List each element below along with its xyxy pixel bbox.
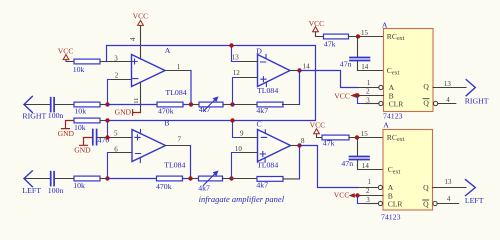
svg-text:GND: GND [58,129,75,138]
wire 470k to node [183,178,191,180]
wire 4k7 to C output corner [283,178,300,180]
wire C output [291,145,300,147]
svg-text:TL084: TL084 [257,161,278,170]
node junction (C + bias) [229,176,233,180]
wire 4k7 to D output corner [283,104,300,106]
svg-text:15: 15 [361,130,369,138]
node junction (B out) [188,176,192,180]
wire node to 4k7 [232,178,258,180]
node junction (rail B left) [105,118,109,122]
capacitor 100n (right) [48,98,64,121]
wire 47n to pin 14 [358,61,384,70]
wire node to pin 2 [108,80,132,105]
wire pin 9 from rail B [233,121,258,138]
svg-text:D: D [256,46,262,55]
svg-text:A: A [165,46,171,55]
svg-text:1: 1 [368,178,372,186]
wire Q output to LEFT [433,187,467,189]
wire 10k to node [100,104,108,106]
wire 10k to node [100,178,108,180]
resistor 10k (right input) [74,102,100,116]
wire B output down [190,146,192,179]
svg-text:47k: 47k [324,40,336,49]
wire bottom rail left [108,178,157,180]
wire op-amp A output [165,70,191,72]
wire corner up to D out [299,71,301,105]
wire 47n to pin 14 [358,160,384,169]
node junction (rail B / pin9) [230,118,234,122]
svg-text:15: 15 [361,29,369,37]
wire rail B down to pin 5 [108,121,133,138]
svg-text:RIGHT: RIGHT [22,112,46,121]
wire pin 13 stub [240,61,258,63]
svg-text:10k: 10k [74,123,86,132]
wire 470k to node [183,104,191,106]
wire pin 3 stub [365,103,379,105]
svg-text:4k7: 4k7 [199,105,211,114]
node junction (D + bias) [230,102,234,106]
wire pin 10 from bias node [232,153,258,179]
wire top rail left [108,104,158,106]
svg-text:Q: Q [423,98,429,107]
svg-text:47n: 47n [341,159,353,168]
ground stub op-amp A pin 11 [115,82,141,116]
wire trimmer to node [223,104,233,106]
svg-text:infragate amplifier panel: infragate amplifier panel [199,194,285,204]
svg-text:14: 14 [362,162,370,170]
svg-text:11: 11 [133,98,140,104]
wire VCC to pin 3 [358,96,379,104]
wire node to 4k7 [233,104,258,106]
svg-text:4k7: 4k7 [198,183,210,192]
svg-text:4k7: 4k7 [256,106,268,115]
node junction (rail A / pin13) [229,43,233,47]
op-amp A TL084 [132,46,187,97]
svg-text:12: 12 [233,69,241,77]
power VCC (op-amp A supply) [133,12,149,26]
wire op-amp B output [166,145,191,147]
wire VCC4 to 47k [317,134,323,138]
wire corner up to C out [299,146,301,179]
node junction (VCC pins B) [355,193,359,197]
svg-text:470k: 470k [158,107,174,116]
svg-text:3: 3 [114,55,118,63]
svg-text:1: 1 [367,79,371,87]
resistor 10k (pin 3) [73,59,100,74]
wire VCC to pin 2 [357,95,384,97]
svg-text:C: C [257,119,262,128]
wire VCC to op-amp A pin 4 [140,26,142,60]
svg-text:5: 5 [114,130,118,138]
wire pin 3 [100,61,132,63]
node junction (VCC pins A) [355,93,359,97]
power VCC (47k bottom) [310,120,326,133]
wire A-input stub [358,187,378,189]
port RIGHT input arrow [22,96,46,120]
wire D out to 74123 A input [300,71,359,88]
wire pin 13 from rail A [232,46,258,62]
wire C out to 74123 B A-input [300,146,359,188]
wire cap to pin 5 node [98,137,108,139]
wire input to cap [24,104,50,106]
trimmer 4k7 (bottom) [198,171,222,193]
wire cap to 10k [55,178,74,180]
svg-text:47k: 47k [323,139,335,148]
resistor 470k (B feedback) [156,176,183,191]
resistor 4k7 (D feedback) [256,102,283,115]
svg-text:TL084: TL084 [257,86,278,95]
svg-text:LEFT: LEFT [465,196,484,205]
svg-text:1: 1 [177,63,181,71]
power VCC (47k top) [309,19,325,32]
port RIGHT output arrow [465,80,489,106]
svg-text:10: 10 [235,145,243,153]
svg-text:470k: 470k [156,182,172,191]
wire VCC to pin 2 [355,195,383,197]
svg-text:9: 9 [240,129,244,137]
wire A-input stub [358,87,378,89]
wire bias rail A [107,46,316,121]
svg-text:VCC: VCC [309,19,325,28]
ground GND (470 cap) [74,138,92,155]
wire pin 3 stub [365,203,378,205]
resistor 47k (top) [324,34,349,49]
svg-text:VCC: VCC [310,120,326,129]
svg-text:CLR: CLR [388,199,404,208]
svg-text:14: 14 [361,63,369,71]
wire Q output to RIGHT [433,87,466,89]
svg-text:VCC: VCC [334,91,350,100]
wire trimmer to node [223,178,232,180]
svg-text:74123: 74123 [383,112,403,121]
wire pin 12 from bias node [233,78,258,105]
trimmer 4k7 (top) [199,96,223,114]
svg-text:B: B [164,118,169,127]
svg-text:GND: GND [115,108,132,117]
svg-text:RIGHT: RIGHT [465,96,489,105]
svg-text:2: 2 [115,72,119,80]
wire pin 6 stub [112,152,132,154]
svg-text:VCC: VCC [58,46,74,55]
svg-text:A: A [382,21,388,30]
svg-text:13: 13 [445,178,453,186]
wire pin 12 stub [240,77,258,79]
svg-text:TL084: TL084 [165,88,186,97]
wire VCC to pin 3 [358,196,379,204]
capacitor 47n (bottom) [341,138,369,168]
wire pin 6 from rail [108,153,133,179]
IC 74123 A [379,21,438,121]
svg-text:14: 14 [303,62,311,70]
port LEFT input arrow [22,171,41,195]
node junction (D out) [297,68,301,72]
svg-text:4k7: 4k7 [256,181,268,190]
capacitor 470 [93,130,110,145]
svg-text:10k: 10k [73,181,85,190]
svg-text:4: 4 [447,195,451,203]
wire Q-bar pin 4 [438,103,456,105]
op-amp B TL084 [132,118,186,169]
svg-text:13: 13 [444,80,452,88]
svg-text:A: A [383,120,389,129]
svg-text:Q: Q [423,200,429,209]
node junction (pin 5) [105,135,109,139]
wire node to trimmer [191,178,199,180]
svg-text:4: 4 [129,37,137,41]
resistor 470k (A feedback) [157,102,183,116]
power VCC (74123 B B/CLR) [334,191,355,200]
wire 47k to pin 15 [349,36,384,38]
svg-text:LEFT: LEFT [22,186,41,195]
wire VCC3 to 47k [316,32,324,37]
ground GND (bias divider bottom) [58,121,75,139]
node junction (RCext top) [356,34,360,38]
port LEFT output arrow [465,180,484,205]
op-amp D TL084 [256,46,290,95]
svg-text:13: 13 [232,54,240,62]
svg-text:VCC: VCC [334,191,350,200]
node junction (A out) [189,102,193,106]
svg-text:3: 3 [366,96,370,104]
svg-text:6: 6 [114,145,118,153]
svg-text:7: 7 [178,136,182,144]
node junction (RCext bottom) [355,135,359,139]
resistor 10k (bias bottom) [74,118,100,132]
wire output down to rail [190,71,192,105]
svg-text:8: 8 [301,137,305,145]
node junction (input B) [105,176,109,180]
svg-text:74123: 74123 [381,212,401,221]
svg-text:2: 2 [366,187,370,195]
wire 47k to pin 15 [349,137,383,139]
wire D output [290,70,300,72]
svg-text:47n: 47n [340,59,352,68]
svg-text:2: 2 [366,88,370,96]
wire node to trimmer [191,104,199,106]
node junction (input A) [105,102,109,106]
svg-text:10k: 10k [73,65,85,74]
wire pin 2 stub [112,79,132,81]
wire pin 10 stub [240,152,258,154]
svg-text:CLR: CLR [389,99,405,108]
resistor 4k7 (C feedback) [256,177,283,190]
svg-text:Q: Q [423,183,429,192]
svg-text:10k: 10k [74,107,86,116]
node junction (C out) [297,143,301,147]
wire pin 5 stub [112,137,132,139]
svg-text:4: 4 [446,96,450,104]
capacitor 47n (top) [340,37,370,69]
wire input to cap [24,178,50,180]
capacitor 100n (left) [48,172,64,195]
svg-text:TL084: TL084 [164,160,185,169]
svg-text:3: 3 [366,196,370,204]
svg-text:100n: 100n [48,111,64,120]
svg-text:100n: 100n [48,186,64,195]
resistor 47k (bottom) [322,135,349,148]
wire cap to 10k [55,104,74,106]
wire VCC2 to R1 [66,60,74,62]
power VCC (bias divider top) [58,46,74,59]
svg-text:VCC: VCC [133,12,149,21]
power VCC (74123 A B/CLR) [334,91,356,100]
wire Q-bar pin 4 [437,203,458,205]
wire 10k to rail B [100,120,108,122]
wire pin 9 stub [240,137,258,139]
resistor 10k (left input) [73,176,100,190]
op-amp C TL084 [257,119,291,169]
IC 74123 B [378,120,437,221]
svg-text:GND: GND [74,145,91,154]
svg-text:Q: Q [423,82,429,91]
